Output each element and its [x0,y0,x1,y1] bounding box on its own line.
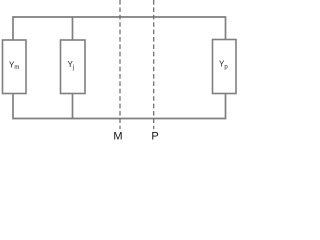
svg-text:M: M [113,131,122,143]
svg-text:Yp: Yp [219,60,228,71]
admittance Yp (box) [213,40,237,94]
admittance Yj (box) [61,40,86,94]
svg-text:P: P [151,131,158,143]
wire: Yj top stub [72,17,74,40]
wire: top bus from Ym up-over to Yp [13,17,226,40]
admittance Ym (box) [3,40,27,94]
svg-text:Yj: Yj [68,60,75,71]
node M boundary (dashed line) [119,0,121,129]
svg-text:Ym: Ym [9,61,19,72]
wire: bottom bus from Ym down-over to Yp [13,94,226,119]
wire: Yj bottom stub [72,94,74,119]
node P boundary (dashed line) [153,0,155,129]
